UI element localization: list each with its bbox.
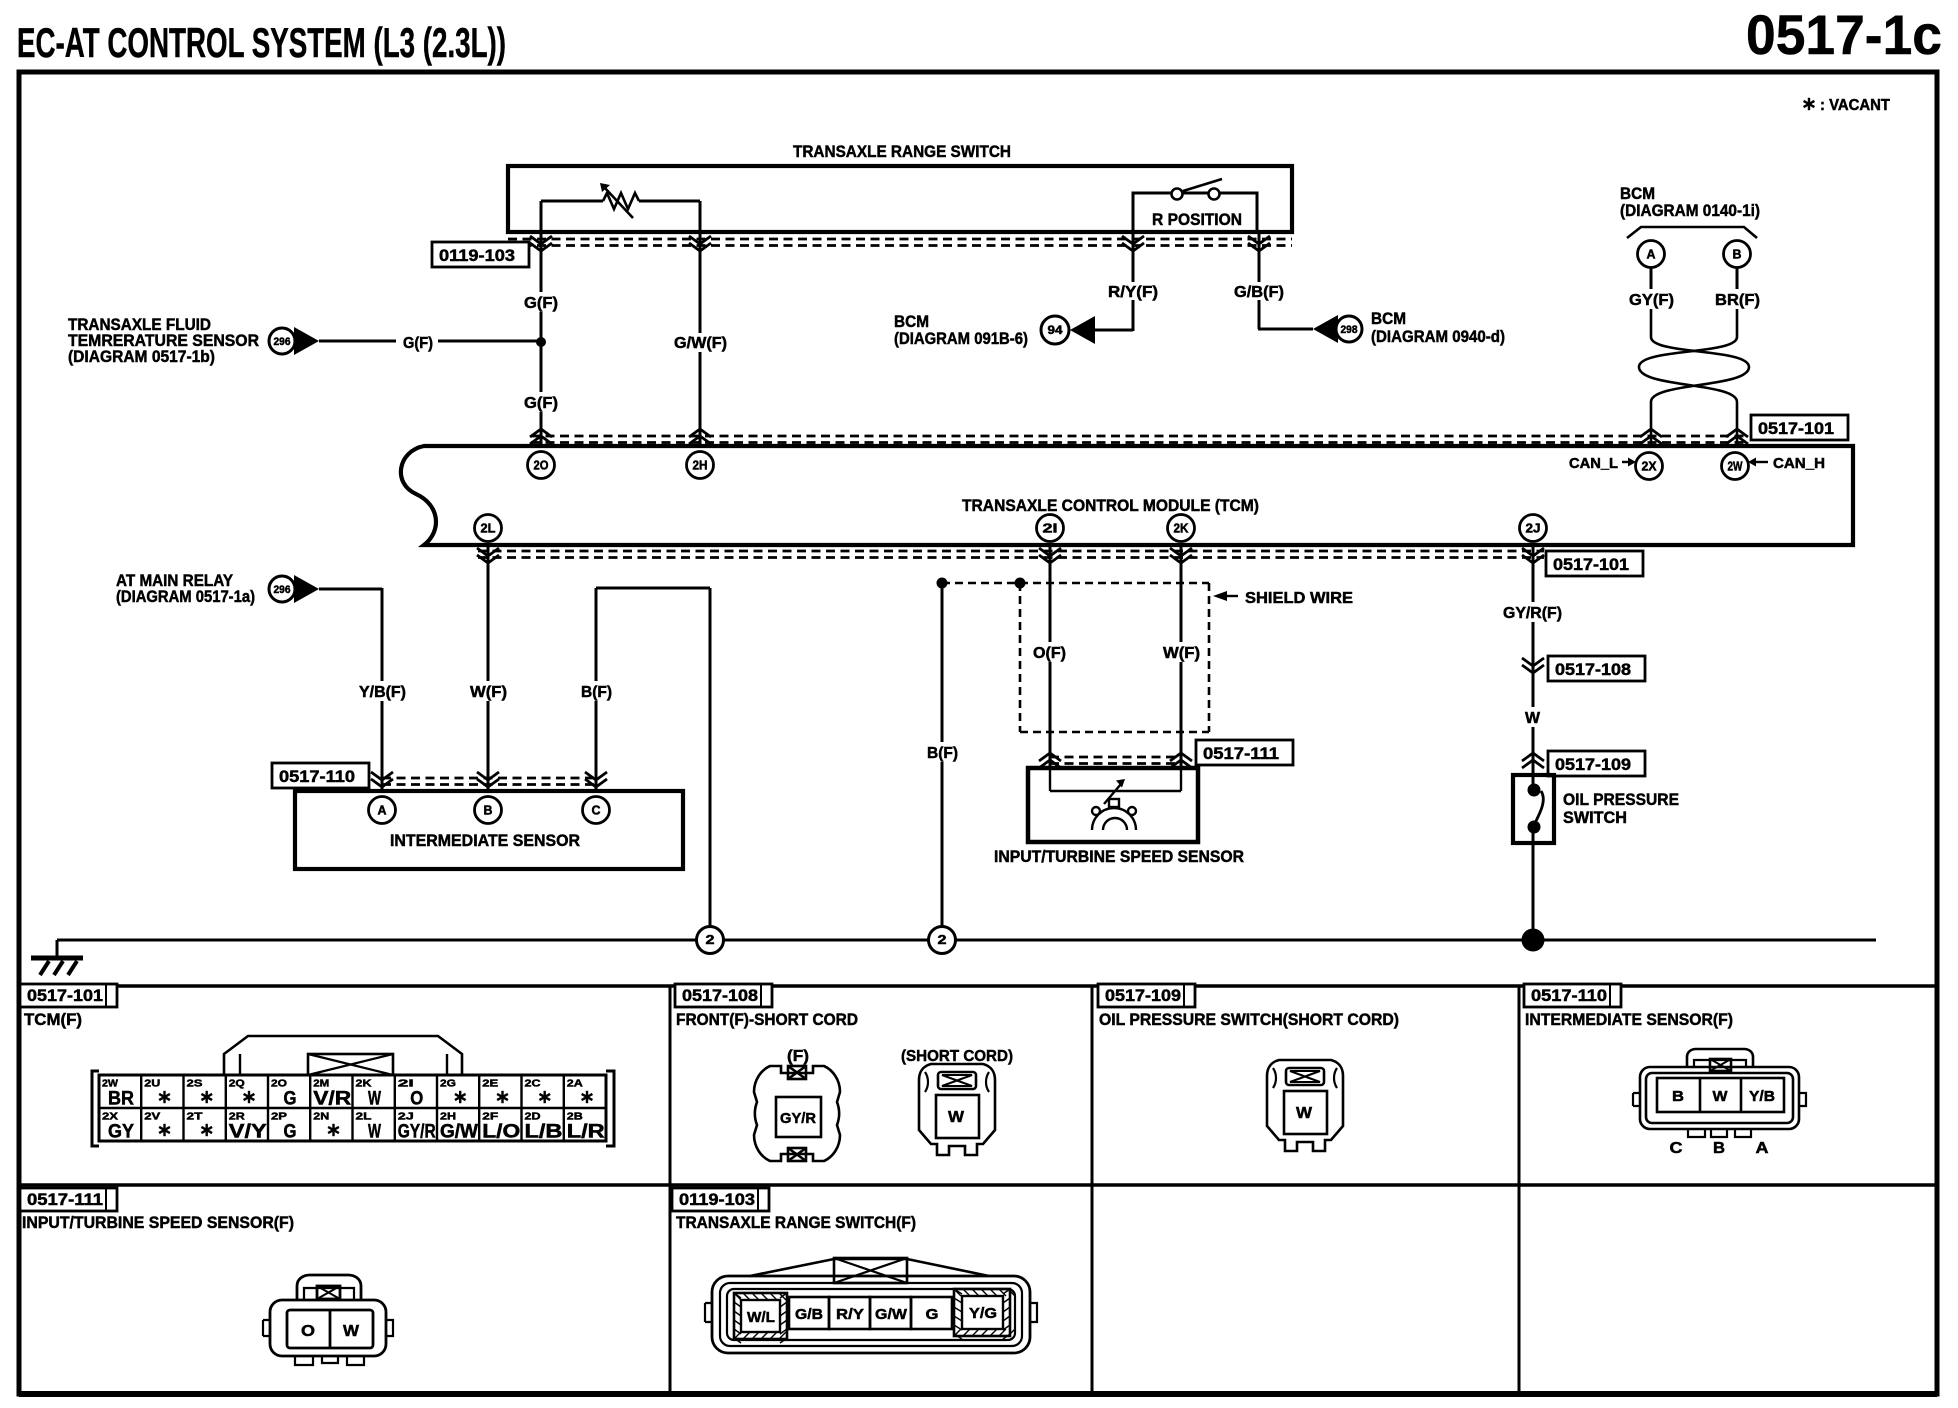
wire G(F) upper segment [540, 232, 543, 292]
svg-text:SHIELD WIRE: SHIELD WIRE [1245, 590, 1353, 607]
svg-text:G/B(F): G/B(F) [1234, 284, 1284, 301]
off-page connector circle 298 (BCM) [1336, 316, 1362, 342]
svg-text:B(F): B(F) [927, 745, 958, 762]
shield wire dashed top run [942, 582, 1209, 585]
svg-text:R POSITION: R POSITION [1152, 210, 1242, 229]
connector chevron at G(F) wire [530, 236, 552, 251]
svg-text:G/B: G/B [795, 1306, 823, 1323]
connector chevron at G/W(F) wire [689, 236, 711, 251]
connector drawing intermediate sensor 3-pin [1633, 1049, 1806, 1137]
range switch pin Y/G (hatched) [954, 1289, 1015, 1339]
chevron at intermediate sensor pin C [585, 772, 607, 787]
svg-text:2T: 2T [187, 1111, 204, 1123]
svg-text:0517-101: 0517-101 [27, 986, 103, 1005]
svg-text:2G: 2G [440, 1078, 456, 1090]
oil pressure switch box [1513, 775, 1554, 843]
BCM pin B [1724, 241, 1751, 268]
ground junction dot (oil pressure switch) [1522, 929, 1545, 952]
svg-text:L/B: L/B [524, 1122, 562, 1143]
wire B(F) branch horizontal to ground drop [596, 587, 710, 590]
ground bus left drop [56, 940, 59, 957]
svg-text:TRANSAXLE CONTROL MODULE (TCM): TRANSAXLE CONTROL MODULE (TCM) [962, 496, 1259, 515]
svg-text:2N: 2N [313, 1111, 329, 1123]
input/turbine speed sensor box [1028, 768, 1198, 842]
wire G(F) lower segment to TCM pin 2O [540, 412, 543, 446]
chevron below TCM pin 2K [1170, 548, 1192, 563]
arrow to BCM 94 [1070, 316, 1095, 344]
svg-text:0517-110: 0517-110 [279, 767, 355, 786]
connector tag 0119-103 [432, 242, 529, 267]
svg-text:296: 296 [274, 584, 291, 596]
wire O(F) from TCM pin 2I upper [1049, 545, 1052, 642]
svg-text:0517-111: 0517-111 [27, 1190, 103, 1209]
wire B(F) sensor-C lower [595, 701, 598, 791]
wire B(F) shield drop upper [941, 583, 944, 742]
connector drawing (SHORT CORD) W [919, 1064, 995, 1155]
svg-text:BR: BR [108, 1089, 134, 1110]
intermediate sensor pin B [475, 797, 502, 824]
svg-text:2L: 2L [481, 522, 496, 536]
svg-text:G: G [926, 1306, 939, 1323]
chevron at intermediate sensor pin A [371, 772, 393, 787]
wire GY/R(F) lower [1532, 622, 1535, 674]
svg-text:OIL PRESSURE: OIL PRESSURE [1563, 790, 1679, 809]
svg-text:EC-AT CONTROL SYSTEM (L3 (2.3L: EC-AT CONTROL SYSTEM (L3 (2.3L)) [17, 19, 506, 66]
oil pressure switch lever [1535, 791, 1543, 823]
wire: thermistor right leg [699, 201, 702, 232]
svg-text:0119-103: 0119-103 [679, 1190, 755, 1209]
wire: thermistor top jumper left [541, 200, 603, 203]
svg-text:L/R: L/R [567, 1122, 605, 1143]
svg-text:W(F): W(F) [470, 684, 507, 701]
svg-text:GY/R: GY/R [398, 1122, 436, 1143]
svg-text:C: C [1670, 1140, 1683, 1157]
svg-text:W: W [368, 1122, 381, 1143]
svg-text:2A: 2A [567, 1078, 583, 1090]
CAN_H label and arrow [1748, 458, 1756, 467]
svg-text:O: O [301, 1323, 315, 1340]
connector chevron at G/B(F) wire [1248, 236, 1270, 251]
intermediate sensor pin C [583, 797, 610, 824]
svg-text:OIL PRESSURE SWITCH(SHORT CORD: OIL PRESSURE SWITCH(SHORT CORD) [1099, 1010, 1399, 1029]
wire W short cord upper [1532, 674, 1535, 707]
svg-text:C: C [592, 803, 602, 818]
svg-text:(DIAGRAM 0517-1b): (DIAGRAM 0517-1b) [68, 347, 215, 366]
table tag 0517-101 [20, 984, 117, 1007]
chevron at TCM pin 2X [1640, 429, 1662, 444]
svg-text:G(F): G(F) [524, 395, 558, 412]
intermediate sensor pin A [369, 797, 396, 824]
connector table grid [19, 986, 1937, 1185]
connector 0119-103 dashed interface lines [508, 239, 1292, 246]
range switch pin W/L (hatched) [734, 1293, 787, 1343]
chevron at TCM pin 2W [1726, 429, 1748, 444]
chevron at intermediate sensor pin B [477, 772, 499, 787]
TCM pin 2H [687, 452, 714, 479]
svg-text:W: W [1525, 710, 1541, 727]
connector tag 0517-101 top [1751, 415, 1848, 440]
svg-text:CAN_H: CAN_H [1773, 456, 1825, 472]
svg-text:A: A [1756, 1140, 1769, 1157]
TCM pin 2X [1636, 453, 1663, 480]
wire R/Y(F) horizontal to BCM arrow [1095, 329, 1133, 332]
svg-text:INTERMEDIATE SENSOR: INTERMEDIATE SENSOR [390, 831, 580, 850]
svg-text:2V: 2V [144, 1111, 160, 1123]
BCM bracket [1627, 227, 1757, 238]
svg-text:G(F): G(F) [403, 335, 433, 352]
svg-text:(DIAGRAM 091B-6): (DIAGRAM 091B-6) [894, 329, 1028, 348]
table tag 0517-109 [1098, 984, 1195, 1007]
speed sensor coil loop [1049, 768, 1051, 791]
svg-text:(F): (F) [787, 1048, 809, 1065]
svg-text:W/L: W/L [747, 1309, 775, 1326]
wire B(F) shield drop lower [941, 762, 944, 927]
connector 0517-101 top dashed interface lines [531, 436, 1748, 443]
wire B(F) sensor-C upper [595, 588, 598, 681]
shield wire junction dot right [1015, 578, 1026, 589]
wire O(F) lower [1049, 662, 1052, 768]
wire G(F) middle segment [540, 312, 543, 392]
connector 0517-110 dashed interface lines [382, 778, 596, 785]
TCM box outline with break squiggle [401, 446, 1853, 545]
svg-text:G: G [283, 1089, 296, 1110]
svg-text:W(F): W(F) [1163, 645, 1200, 662]
shield wire junction dot left [937, 578, 948, 589]
chevron at TCM pin 2H [689, 429, 711, 444]
connector tag 0517-109 [1548, 751, 1645, 776]
svg-text:0517-110: 0517-110 [1531, 986, 1607, 1005]
wire BR(F) from pin B [1736, 268, 1739, 289]
R position switch sub-box [1133, 193, 1257, 232]
svg-text:2K: 2K [1174, 522, 1189, 536]
connector tag 0517-101 bottom [1546, 551, 1643, 576]
svg-text:A: A [1647, 247, 1657, 262]
wire Y/B(F) vertical upper [381, 588, 384, 681]
svg-text:CAN_L: CAN_L [1569, 456, 1618, 472]
wire W(F) lower [1180, 662, 1183, 768]
range switch pin G/W [870, 1297, 911, 1329]
svg-text:G/W: G/W [875, 1306, 908, 1323]
wire W short cord lower [1532, 727, 1535, 771]
ground node circle 2 (shield branch) [929, 927, 956, 954]
TCM(F) connector drawing [92, 1036, 614, 1146]
svg-text:L/O: L/O [482, 1122, 520, 1143]
svg-text:TCM(F): TCM(F) [24, 1010, 82, 1029]
svg-text:0517-108: 0517-108 [682, 986, 758, 1005]
svg-text:GY: GY [108, 1122, 134, 1143]
resistor (fluid temp thermistor element) [603, 193, 639, 209]
svg-text:2: 2 [938, 932, 947, 947]
ground bus wire [57, 939, 1876, 942]
svg-text:2E: 2E [482, 1078, 498, 1090]
svg-text:GY/R: GY/R [780, 1110, 816, 1127]
wire R/Y(F) vertical [1132, 232, 1135, 282]
svg-text:(SHORT CORD): (SHORT CORD) [901, 1048, 1013, 1065]
svg-text:0517-101: 0517-101 [1758, 419, 1834, 438]
svg-text:INPUT/TURBINE SPEED SENSOR(F): INPUT/TURBINE SPEED SENSOR(F) [22, 1213, 294, 1232]
transaxle range switch box [508, 166, 1292, 232]
chevron at TCM pin 2O [530, 429, 552, 444]
svg-text:O(F): O(F) [1033, 645, 1066, 662]
speed sensor pickup icon [1092, 784, 1136, 830]
svg-text:(DIAGRAM 0940-d): (DIAGRAM 0940-d) [1371, 327, 1505, 346]
svg-text:SWITCH: SWITCH [1563, 808, 1627, 827]
shield wire dashed box [1020, 583, 1209, 732]
svg-text:FRONT(F)-SHORT CORD: FRONT(F)-SHORT CORD [676, 1010, 858, 1029]
svg-text:TRANSAXLE RANGE SWITCH: TRANSAXLE RANGE SWITCH [793, 142, 1011, 161]
svg-text:Y/B: Y/B [1749, 1088, 1775, 1105]
svg-text:INTERMEDIATE SENSOR(F): INTERMEDIATE SENSOR(F) [1525, 1010, 1733, 1029]
oil pressure switch wire through top [1532, 768, 1535, 786]
TCM pin 2J [1520, 515, 1547, 542]
off-page connector circle 94 (BCM) [1041, 316, 1069, 344]
svg-text:R/Y(F): R/Y(F) [1108, 284, 1158, 301]
chevron at speed sensor O pin [1039, 753, 1061, 768]
svg-text:G/W: G/W [440, 1122, 478, 1143]
twisted pair CAN wires [1651, 309, 1749, 446]
arrow from temp sensor [294, 327, 319, 355]
wire: thermistor top jumper right [639, 200, 700, 203]
svg-text:2J: 2J [1526, 522, 1541, 536]
svg-text:: VACANT: : VACANT [1820, 97, 1890, 114]
connector 0517-101 bottom dashed interface lines [478, 551, 1544, 558]
chevron below TCM pin 2J [1522, 548, 1544, 563]
svg-text:TRANSAXLE RANGE SWITCH(F): TRANSAXLE RANGE SWITCH(F) [676, 1213, 916, 1232]
connector drawing transaxle range switch 6-pin [705, 1258, 1037, 1353]
svg-text:296: 296 [274, 336, 291, 348]
connector tag 0517-110 [272, 763, 369, 788]
chevron at speed sensor W pin [1170, 753, 1192, 768]
svg-text:B: B [1713, 1140, 1725, 1157]
svg-text:2X: 2X [1642, 460, 1658, 474]
svg-text:R/Y: R/Y [836, 1306, 864, 1323]
svg-text:0517-109: 0517-109 [1555, 755, 1631, 774]
ground symbol [31, 958, 83, 975]
svg-text:2H: 2H [693, 459, 708, 473]
wire GY/R(F) from TCM pin 2J [1532, 545, 1535, 602]
svg-text:2U: 2U [144, 1078, 160, 1090]
svg-text:2C: 2C [525, 1078, 541, 1090]
connector chevron at R/Y(F) wire [1122, 236, 1144, 251]
svg-text:0517-111: 0517-111 [1203, 744, 1279, 763]
svg-text:G(F): G(F) [524, 295, 558, 312]
svg-text:V/Y: V/Y [229, 1122, 267, 1143]
svg-text:W: W [343, 1323, 360, 1340]
svg-text:V/R: V/R [313, 1089, 351, 1110]
wire: thermistor left leg [540, 201, 543, 232]
oil pressure switch contact top [1528, 784, 1541, 797]
table tag 0517-108 [675, 984, 772, 1007]
svg-text:0517-108: 0517-108 [1555, 660, 1631, 679]
svg-text:0517-101: 0517-101 [1553, 555, 1629, 574]
connector tag 0517-108 [1548, 656, 1645, 681]
BCM pin A [1638, 241, 1665, 268]
svg-text:0517-109: 0517-109 [1105, 986, 1181, 1005]
svg-text:0119-103: 0119-103 [439, 246, 515, 265]
svg-text:A: A [378, 803, 388, 818]
arrow to BCM 298 [1313, 315, 1338, 343]
TCM pin 2L [475, 515, 502, 542]
svg-text:B(F): B(F) [581, 684, 612, 701]
off-page connector circle 296 (AT main relay) [269, 576, 295, 602]
svg-text:B: B [1733, 247, 1742, 262]
svg-text:2: 2 [706, 932, 715, 947]
wire G/W(F) upper segment [699, 232, 702, 333]
wire from oil pressure switch to ground [1532, 831, 1535, 940]
wire G/B(F) vertical [1258, 232, 1261, 282]
chevron at 0517-108 [1522, 658, 1544, 673]
svg-text:94: 94 [1048, 323, 1063, 337]
wire temp sensor to junction [438, 340, 541, 343]
TCM pin 2W [1722, 453, 1749, 480]
svg-text:INPUT/TURBINE SPEED SENSOR: INPUT/TURBINE SPEED SENSOR [994, 847, 1244, 866]
wire G/W(F) lower segment to TCM pin 2H [699, 352, 702, 446]
table tag 0517-110 [1524, 984, 1621, 1007]
wire Y/B(F) horizontal from relay [319, 588, 382, 591]
TCM pin 2K [1168, 515, 1195, 542]
table tag 0119-103 [672, 1188, 769, 1211]
svg-text:0517-1c: 0517-1c [1746, 3, 1942, 66]
intermediate sensor box [295, 791, 683, 869]
svg-text:Y/B(F): Y/B(F) [359, 684, 406, 701]
svg-text:(DIAGRAM 0140-1i): (DIAGRAM 0140-1i) [1620, 201, 1760, 220]
wire Y/B(F) vertical lower [381, 701, 384, 791]
svg-text:O: O [410, 1089, 423, 1110]
junction node: temp sensor feed joins G(F) [536, 337, 546, 347]
R position switch contacts [1172, 189, 1183, 200]
svg-text:2Q: 2Q [229, 1078, 245, 1090]
svg-text:Y/G: Y/G [969, 1305, 997, 1322]
wire W(F) from TCM pin 2K upper [1180, 545, 1183, 642]
connector 0517-111 dashed interface lines [1050, 757, 1181, 764]
ground node circle 2 (intermediate sensor branch) [697, 927, 724, 954]
svg-text:2O: 2O [534, 459, 549, 473]
TCM pin 2I [1037, 515, 1064, 542]
connector drawing (F) GY/R barrel [754, 1066, 840, 1161]
svg-text:BCM: BCM [1371, 309, 1406, 328]
wire GY(F) from pin A [1650, 268, 1653, 289]
svg-text:BR(F): BR(F) [1715, 292, 1760, 309]
wire W(F) from TCM pin 2L upper [487, 545, 490, 681]
TCM pin 2O [528, 452, 555, 479]
wire G/B(F) horizontal to BCM arrow [1258, 328, 1313, 331]
range switch pin G [911, 1297, 952, 1329]
svg-text:GY/R(F): GY/R(F) [1503, 605, 1562, 622]
svg-text:W: W [1713, 1088, 1729, 1105]
svg-text:B: B [1672, 1088, 1684, 1105]
range switch pin G/B [789, 1297, 829, 1329]
arrow from AT main relay [294, 575, 319, 603]
svg-text:G/W(F): G/W(F) [674, 335, 727, 352]
svg-text:2W: 2W [1728, 460, 1743, 474]
vacant legend [1804, 98, 1815, 110]
wire ground drop from B(F) branch [709, 588, 712, 927]
R position switch lever [1183, 179, 1222, 191]
svg-text:2S: 2S [187, 1078, 203, 1090]
wire W(F) lower [487, 701, 490, 791]
chevron below TCM pin 2L [477, 548, 499, 563]
wire from temp sensor arrow [319, 340, 396, 343]
off-page connector circle 296 (temp sensor) [269, 328, 295, 354]
chevron below TCM pin 2I [1039, 548, 1061, 563]
svg-text:W: W [948, 1109, 965, 1126]
range switch pin R/Y [829, 1297, 870, 1329]
shield wire pointer arrow [1213, 591, 1227, 601]
connector drawing speed sensor 2-pin [263, 1275, 393, 1365]
oil pressure switch contact bottom [1528, 821, 1541, 834]
connector drawing oil pressure switch W [1267, 1060, 1343, 1151]
svg-text:G: G [283, 1122, 296, 1143]
table tag 0517-111 [20, 1188, 117, 1211]
svg-text:W: W [368, 1089, 381, 1110]
svg-text:(DIAGRAM 0517-1a): (DIAGRAM 0517-1a) [116, 587, 255, 606]
connector tag 0517-111 [1196, 740, 1293, 765]
svg-text:W: W [1296, 1105, 1313, 1122]
chevron at 0517-109 [1522, 753, 1544, 768]
thermistor arrow [604, 187, 633, 218]
svg-text:298: 298 [1341, 324, 1358, 336]
svg-text:2I: 2I [1043, 522, 1058, 536]
svg-text:GY(F): GY(F) [1629, 292, 1674, 309]
svg-text:B: B [484, 803, 493, 818]
